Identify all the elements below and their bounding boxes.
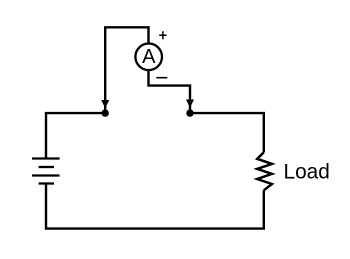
svg-text:A: A	[142, 46, 156, 68]
junction node right	[186, 109, 193, 116]
resistor R1 (Load) zigzag	[257, 152, 272, 190]
wire top horizontal (ammeter loop top)	[105, 27, 148, 112]
arrowhead right current arrow	[186, 100, 194, 108]
wire battery top horizontal	[46, 113, 105, 158]
ammeter A1 body circle	[135, 44, 162, 71]
junction node left	[102, 109, 109, 116]
battery B1 plate long (+)	[32, 174, 60, 176]
wire ammeter bottom jog	[149, 70, 191, 112]
wire battery bottom / return loop	[46, 184, 264, 229]
battery B1 plate short (-)	[39, 166, 54, 168]
wire right branch horizontal	[190, 113, 264, 152]
polarity plus sign	[159, 31, 166, 39]
polarity minus sign	[156, 77, 167, 79]
arrowhead left current arrow	[101, 100, 109, 108]
battery B1 plate short bottom (-)	[39, 182, 54, 184]
svg-text:Load: Load	[284, 161, 330, 184]
battery B1 plate long top (+)	[32, 157, 60, 159]
